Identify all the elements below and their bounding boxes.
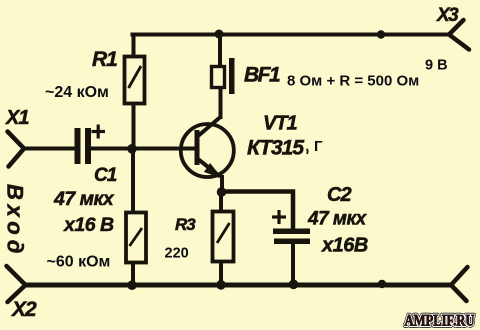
- svg-text:~60 кОм: ~60 кОм: [47, 254, 111, 271]
- svg-text:~24 кОм: ~24 кОм: [45, 84, 109, 101]
- svg-text:220: 220: [165, 246, 189, 262]
- svg-text:х16В: х16В: [321, 235, 368, 257]
- capacitor C1: [75, 128, 92, 164]
- wire top rail: [133, 33, 449, 37]
- transistor VT1 collector stroke: [198, 117, 221, 137]
- node emitter junction: [217, 187, 227, 197]
- svg-text:9 В: 9 В: [425, 58, 448, 74]
- speaker BF1: [212, 67, 225, 88]
- resistor R1: [125, 57, 145, 104]
- capacitor C2: [273, 229, 310, 245]
- connector X3: [449, 20, 469, 50]
- stray comma mark: [307, 149, 308, 154]
- svg-text:C1: C1: [94, 165, 117, 186]
- svg-text:C2: C2: [327, 184, 351, 206]
- node bottom R2: [127, 280, 137, 290]
- logo AMPLIF.RU: [405, 313, 475, 330]
- resistor R3: [213, 212, 234, 262]
- wire emitter node to C2: [222, 192, 293, 229]
- transistor VT1 emitter arrowhead: [204, 163, 223, 179]
- wire bottom rail: [27, 283, 450, 288]
- wire C1 to base: [91, 147, 195, 151]
- svg-text:X3: X3: [436, 5, 459, 26]
- svg-text:VT1: VT1: [263, 113, 298, 135]
- svg-text:Вход: Вход: [3, 184, 28, 258]
- wire R3 top lead: [219, 192, 223, 211]
- svg-text:Г: Г: [314, 138, 323, 155]
- wire R1 top lead: [132, 35, 136, 57]
- node bottom R3: [216, 280, 226, 290]
- svg-text:х16 В: х16 В: [63, 214, 114, 236]
- node bottom C2: [289, 280, 299, 290]
- wire R2 top lead: [131, 149, 135, 212]
- node junction top right: [377, 30, 385, 38]
- connector X2: [7, 266, 26, 302]
- wire R2 bottom lead: [131, 263, 135, 285]
- svg-text:X2: X2: [11, 298, 37, 321]
- svg-text:47 мкх: 47 мкх: [307, 209, 368, 230]
- svg-text:BF1: BF1: [244, 64, 280, 87]
- connector X4 bottom right: [451, 267, 468, 301]
- wire C2 bottom lead: [291, 244, 295, 284]
- resistor R2 wiper diagonal: [130, 228, 143, 246]
- wire R3 bottom lead: [219, 262, 223, 285]
- transistor VT1 emitter stroke: [198, 159, 220, 177]
- wire emitter to junction: [220, 177, 224, 192]
- resistor R1 wiper diagonal: [129, 66, 142, 88]
- transistor VT1 base bar: [195, 130, 200, 165]
- polarity plus C1: [92, 125, 106, 139]
- svg-text:X1: X1: [5, 107, 29, 129]
- svg-text:8 Ом + R = 500 Ом: 8 Ом + R = 500 Ом: [287, 73, 419, 90]
- node base junction: [127, 144, 137, 154]
- node junction top (BF1 tap): [215, 30, 224, 39]
- wire R1 bottom lead: [132, 104, 136, 149]
- wire X1 to C1: [24, 147, 75, 151]
- svg-text:47 мкх: 47 мкх: [53, 188, 115, 210]
- svg-text:AMPLIF.RU: AMPLIF.RU: [405, 313, 475, 330]
- polarity plus C2: [272, 210, 286, 224]
- svg-text:R1: R1: [92, 48, 117, 71]
- wire BF1 top lead: [218, 35, 222, 67]
- svg-text:КТ315: КТ315: [247, 137, 304, 160]
- speaker BF1 side bar: [229, 58, 235, 94]
- connector X1: [8, 132, 25, 167]
- resistor R2: [126, 213, 146, 263]
- node bottom right: [378, 280, 386, 288]
- resistor R3 wiper diagonal: [217, 223, 230, 243]
- svg-text:R3: R3: [175, 215, 196, 234]
- transistor VT1: [181, 124, 234, 177]
- wire BF1 bottom lead to collector: [219, 88, 223, 117]
